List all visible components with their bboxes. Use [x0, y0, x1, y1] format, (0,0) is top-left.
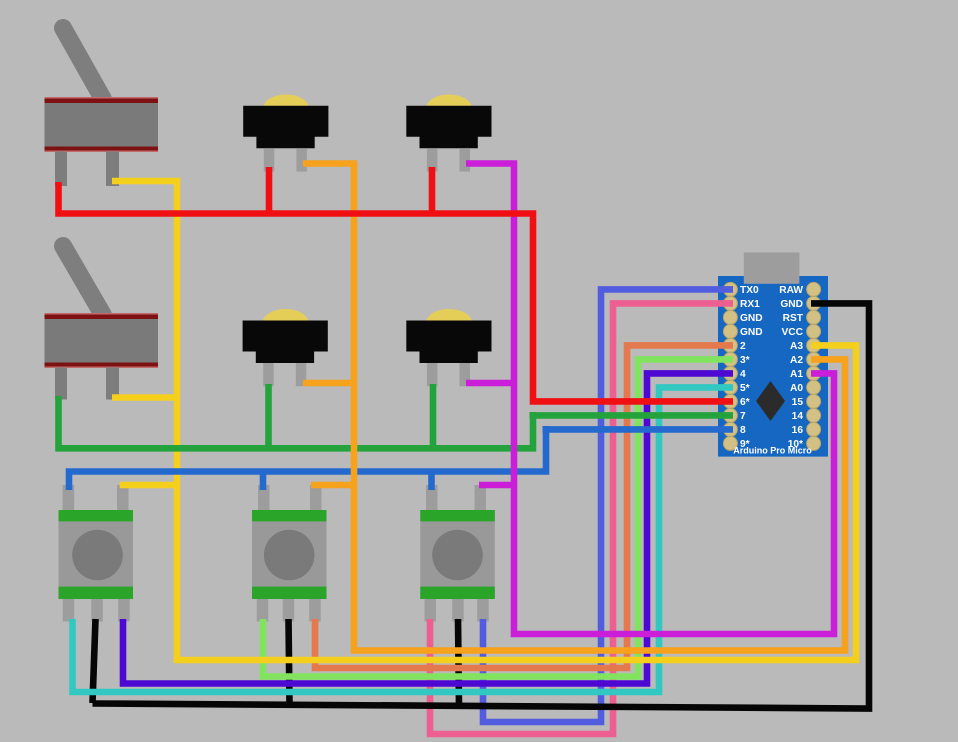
svg-text:VCC: VCC — [781, 327, 803, 338]
svg-text:A3: A3 — [790, 341, 803, 352]
wire cyan pin5 to R1 — [73, 387, 734, 692]
potentiometer R3 — [420, 485, 495, 622]
wire yellow vertical from SW1/SW2/R1 — [112, 181, 177, 660]
svg-text:Arduino Pro Micro: Arduino Pro Micro — [733, 446, 812, 456]
svg-text:RST: RST — [783, 313, 804, 324]
wire salmon pin2 to R2 — [315, 345, 733, 668]
svg-text:TX0: TX0 — [740, 285, 759, 296]
svg-text:3*: 3* — [740, 355, 750, 366]
wire yellow bottom run to A3 — [174, 345, 857, 660]
pushbutton S4 — [406, 309, 491, 386]
wire orange S1/S3/R2 to A2 — [303, 164, 845, 651]
svg-text:6*: 6* — [740, 397, 750, 408]
svg-text:7: 7 — [740, 411, 746, 422]
wire green bus SW2 to buttons — [59, 384, 534, 448]
svg-text:A2: A2 — [790, 355, 803, 366]
svg-text:GND: GND — [780, 299, 803, 310]
svg-text:15: 15 — [792, 397, 804, 408]
pushbutton S1 — [243, 95, 328, 172]
svg-text:16: 16 — [792, 425, 804, 436]
Arduino Pro Micro U1 — [718, 252, 828, 456]
svg-text:5*: 5* — [740, 383, 750, 394]
svg-text:RAW: RAW — [779, 285, 803, 296]
svg-text:A0: A0 — [790, 383, 803, 394]
pushbutton S2 — [406, 95, 491, 172]
toggle switch SW2 — [45, 246, 159, 400]
wire light green pin3 to R2 — [263, 359, 733, 676]
wire blue bus pot tops — [69, 426, 546, 490]
wire royal blue TX0 to R3 — [483, 289, 733, 722]
toggle switch SW1 — [45, 28, 159, 186]
wire magenta S2/S4/R3 to A1 — [466, 164, 834, 635]
svg-text:GND: GND — [740, 327, 763, 338]
wire black pot wiper stubs — [93, 619, 460, 706]
svg-text:8: 8 — [740, 425, 746, 436]
potentiometer R2 — [252, 485, 327, 622]
svg-text:GND: GND — [740, 313, 763, 324]
wire green leg to pin7 — [530, 412, 734, 419]
wire pink RX1 to R3 — [430, 303, 733, 734]
potentiometer R1 — [59, 485, 134, 622]
wire indigo pin4 to R1 — [123, 373, 733, 683]
wire red bus switches and buttons to pin6 — [59, 167, 734, 401]
svg-text:RX1: RX1 — [740, 299, 760, 310]
wire blue leg to pin8 — [543, 426, 734, 433]
wire black ground bus to GND — [93, 303, 870, 708]
pushbutton S3 — [243, 309, 328, 386]
svg-text:2: 2 — [740, 341, 746, 352]
svg-text:A1: A1 — [790, 369, 803, 380]
svg-text:4: 4 — [740, 369, 746, 380]
svg-text:14: 14 — [792, 411, 804, 422]
